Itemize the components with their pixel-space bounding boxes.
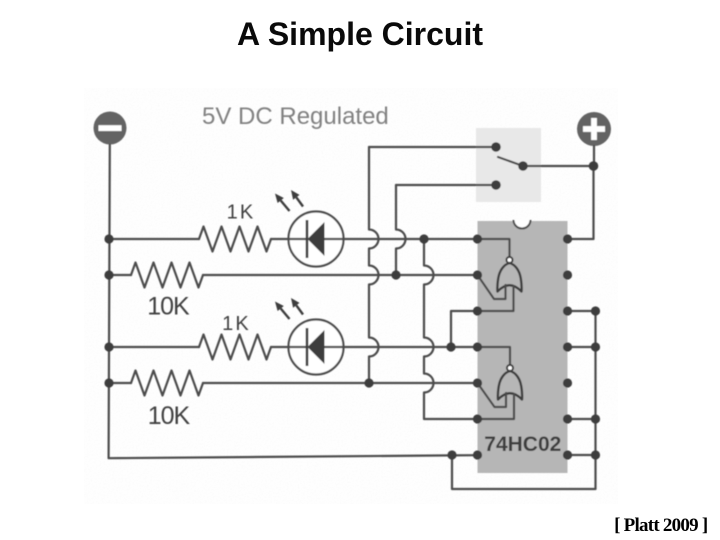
svg-text:10K: 10K [147, 293, 190, 321]
NOR gate U1a output wire to pin 1 [478, 239, 510, 257]
wire: switch common to plus junction [523, 165, 594, 167]
IC pin 10 [563, 378, 572, 387]
IC pin 2 [473, 270, 482, 279]
wire: row G left (bus to R4) [109, 382, 131, 384]
junction: row F / pin 3 branch [446, 342, 455, 351]
IC U1 74HC02 shaded body [478, 221, 568, 473]
NOR gate U1a body [497, 263, 521, 292]
wire: IC pin 9 stub to right bus [568, 418, 596, 420]
switch S1 common contact [518, 161, 528, 171]
wire: IC pin 12 stub to right bus [568, 310, 596, 312]
NOR gate U1b input from pin 6 [478, 394, 515, 419]
plus terminal [577, 112, 611, 146]
NOR gate U1a bubble [507, 257, 513, 263]
junction: bus / row D [104, 270, 113, 279]
wire: branch from row C down to IC pin 6 (hops rows D, F, G) [424, 239, 478, 419]
NOR gate U1a input from pin 3 [478, 286, 514, 311]
switch S1 lever [498, 157, 523, 166]
wire: ground return loop (pin 7 row down, across, right bus up) [452, 311, 596, 489]
LED D2 [289, 320, 344, 375]
IC pin 6 [473, 414, 482, 423]
IC pin 3 [473, 306, 482, 315]
NOR gate U1b input from pin 5 [478, 383, 507, 407]
wire: negative bus and bottom ground row [109, 145, 478, 458]
junction: row C / pin 6 branch [419, 234, 428, 243]
svg-text:1K: 1K [222, 313, 251, 335]
wire: IC pin 11 stub to right bus [568, 346, 596, 348]
wire: switch top throw to vertical drop [369, 146, 496, 148]
IC pin 4 [473, 342, 482, 351]
IC pin 12 [563, 306, 572, 315]
wire: IC pin 8 stub to right bus [568, 454, 596, 456]
junction: bus / row G [104, 378, 113, 387]
IC pin 9 [563, 414, 572, 423]
wire: row F left (bus to R3) [109, 346, 199, 348]
svg-text:A Simple Circuit: A Simple Circuit [237, 16, 483, 52]
junction: row D / switch drop [391, 270, 400, 279]
IC pin 7 [473, 450, 482, 459]
wire: LED D2 to IC pin 4 [343, 346, 478, 348]
wire: vertical drop from switch top throw to row G (hops rows C, D, F) [369, 147, 379, 383]
wire: vertical drop from switch bottom throw to row D (hops row C) [396, 185, 406, 275]
switch S1 bottom throw contact [491, 180, 501, 190]
svg-text:74HC02: 74HC02 [484, 433, 561, 456]
resistor R1 1K [199, 227, 271, 252]
svg-text:10K: 10K [148, 402, 191, 430]
svg-text:5V DC Regulated: 5V DC Regulated [202, 103, 389, 130]
LED D1 emission arrows [275, 190, 303, 211]
IC U1 notch [514, 220, 531, 229]
scan paper grain [84, 88, 618, 504]
wire: switch bottom throw to vertical drop [396, 184, 496, 186]
svg-text:1K: 1K [227, 202, 256, 224]
IC pin 14 [563, 234, 572, 243]
junction: ground row / return loop [447, 450, 456, 459]
NOR gate U1a input from pin 2 [478, 275, 506, 299]
wire: R4 to IC pin 5 [203, 382, 478, 384]
junction: row G / switch drop [364, 378, 373, 387]
node: right bus at pin 12 [591, 306, 600, 315]
IC pin 5 [473, 378, 482, 387]
resistor R3 1K [199, 335, 271, 360]
wire: plus terminal down to IC pin 14 [568, 146, 595, 239]
wire: R3 to LED D2 [271, 346, 289, 348]
IC pin 8 [563, 450, 572, 459]
IC pin 13 [563, 270, 572, 279]
wire: branch from row F up to IC pin 3 [451, 311, 478, 347]
node: right bus at pin 11 [591, 342, 600, 351]
junction: bus / row F [104, 342, 113, 351]
junction: plus terminal node [589, 161, 599, 171]
NOR gate U1b output wire to pin 4 [478, 347, 511, 365]
junction: bus / row C [104, 234, 113, 243]
LED D1 [289, 212, 344, 267]
wire: R2 to IC pin 2 [203, 274, 478, 276]
wire: row D left (bus to R2) [109, 274, 131, 276]
NOR gate U1b bubble [507, 365, 513, 371]
node: right bus at pin 8 [591, 450, 600, 459]
switch S1 shaded box [476, 128, 541, 202]
switch S1 top throw contact [491, 142, 501, 152]
IC pin 1 [473, 234, 482, 243]
wire: LED D1 to IC pin 1 [343, 238, 478, 240]
svg-text:[ Platt 2009 ]: [ Platt 2009 ] [614, 515, 707, 536]
resistor R4 10K [131, 371, 203, 396]
LED D2 emission arrows [275, 298, 303, 319]
node: right bus at pin 9 [591, 414, 600, 423]
NOR gate U1b body [498, 371, 522, 400]
minus terminal [94, 112, 127, 145]
wire: R1 to LED D1 [271, 238, 289, 240]
resistor R2 10K [131, 263, 203, 288]
wire: row C left (bus to R1) [109, 238, 199, 240]
IC pin 11 [563, 342, 572, 351]
